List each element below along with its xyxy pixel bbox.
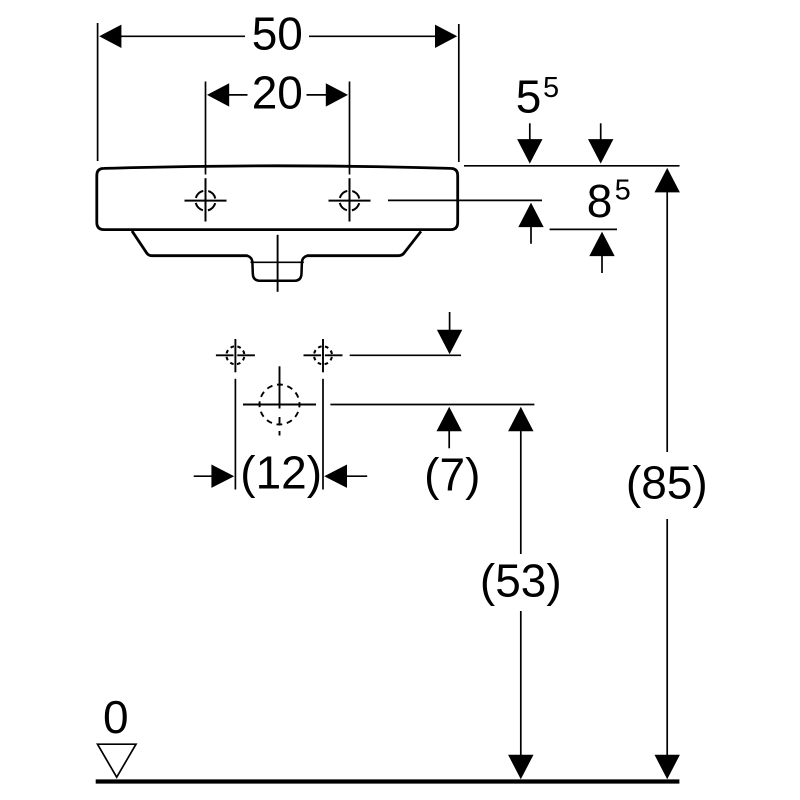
tap hole right: vertical centreline [349,178,351,221]
dimension (12): left extension line [234,379,236,490]
svg-text:8: 8 [587,175,613,227]
tap hole left: horizontal centreline [185,200,227,202]
dimension 50: line right segment [309,35,436,37]
dimension (85): arrow down to floor [655,755,680,780]
tap hole right: horizontal centreline [329,200,371,202]
drain pipe: vertical centreline dashes [279,417,281,425]
reference line: drain level [330,404,534,406]
drain vertical centreline [277,235,279,292]
dimension (7): arrow down to fixing hole level [449,312,451,331]
drain pipe: horizontal centreline [243,404,316,406]
reference line: basin top level [464,165,680,167]
svg-text:(7): (7) [424,448,480,500]
svg-text:20: 20 [252,67,303,119]
dimension (12): right arrow [324,465,347,488]
drain pipe: vertical centreline solid [279,366,281,408]
svg-text:5: 5 [615,175,631,207]
dimension 50: left arrowhead [99,25,121,48]
tap hole left: dashed circle [196,191,216,211]
reference line: tap hole level [388,199,542,201]
dimension (53): lower line [520,611,522,756]
dimension (7): arrow up to drain level [437,407,462,432]
dimension 50: right extension line [458,24,460,162]
tap hole right: dashed circle [340,191,360,211]
dimension 50: line left segment [120,35,245,37]
drain pipe: dashed circle [260,385,300,425]
svg-text:50: 50 [252,8,303,60]
fixing hole left: vertical centreline [234,339,236,372]
washbasin body outline [97,166,458,230]
reference line: basin bottom level [550,228,617,230]
dimension (12): right extension line [322,379,324,490]
dimension 20: line right segment [307,94,328,96]
fixing hole right: dashed circle [314,346,332,364]
fixing hole right: vertical centreline [322,339,324,372]
tap hole left: vertical centreline [205,178,207,221]
drain cup inner line [251,261,304,263]
dimension 50: right arrowhead [435,25,457,48]
fixing hole left: horizontal centreline [216,354,234,356]
dimension 20: line left segment [228,94,248,96]
dimension (53): arrow down to floor [508,755,533,780]
fixing hole left: dashed circle [226,346,244,364]
fixing hole right: horizontal centreline [304,354,322,356]
arrow down to basin top (5^5) [529,123,531,141]
dimension (53): arrow up to drain level [508,407,533,432]
svg-text:5: 5 [543,72,559,104]
arrow down to basin top (8^5) [600,123,602,141]
dimension (85): lower line [666,519,668,756]
arrow up to basin bottom level (8^5) [589,232,614,257]
svg-text:(53): (53) [480,554,562,606]
dimension (12): left arrow [194,475,212,477]
arrow up to tap hole level (5^5) [518,203,543,228]
svg-text:(12): (12) [240,446,322,498]
reference line: fixing hole level [350,354,461,356]
dimension 20: right arrowhead [326,83,348,106]
dimension 50: left extension line [97,23,99,161]
drain cup outline [247,256,307,281]
svg-text:0: 0 [103,691,129,743]
datum triangle [98,744,137,777]
basin bowl lower outline [132,231,421,256]
svg-text:5: 5 [516,70,542,122]
floor line [96,779,680,783]
dimension 20: right extension line [349,82,351,175]
dimension (85): arrow up to basin top level [655,168,680,193]
dimension 20: left arrowhead [207,83,229,106]
svg-text:(85): (85) [626,456,708,508]
dimension 20: left extension line [205,82,207,175]
